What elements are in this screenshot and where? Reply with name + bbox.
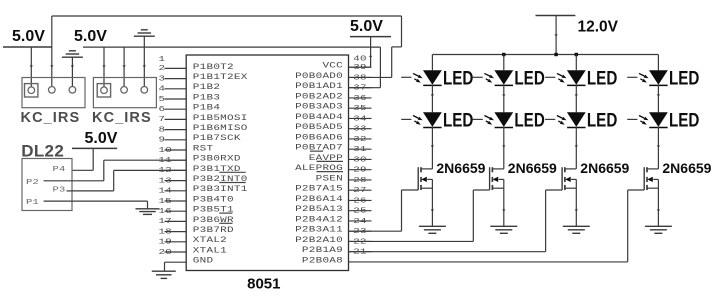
pin 13 stub (159, 176, 187, 185)
pin 4 stub (159, 84, 187, 93)
power 5.0V supply V1 bar (3, 46, 52, 48)
pin label XTAL1 (193, 246, 227, 255)
svg-text:26: 26 (353, 196, 367, 205)
pin 14 stub (159, 186, 187, 195)
pin 5 stub (159, 94, 187, 103)
wire 8051 GND to ground (165, 262, 187, 271)
svg-text:2: 2 (159, 64, 166, 73)
wire col2 rail to LED2A (503, 55, 505, 71)
transistor Q2 2N6659 (490, 167, 504, 190)
pin label P2B5A13 (295, 204, 343, 213)
svg-text:32: 32 (353, 134, 366, 143)
wire Q3 source to ground (575, 188, 578, 226)
svg-text:29: 29 (353, 165, 366, 174)
wire col1 rail to LED1A (431, 55, 433, 71)
svg-text:P2B7A15: P2B7A15 (295, 184, 343, 193)
connector J2 pin 2 (121, 87, 128, 94)
svg-text:1: 1 (159, 55, 166, 64)
svg-text:P1B2: P1B2 (193, 83, 220, 92)
overline INT1 (219, 182, 245, 184)
wire col4 rail to LED4A (657, 55, 659, 71)
junction dot col3 (575, 53, 578, 56)
pin 33 stub (349, 124, 372, 133)
wire Q4 source to ground (657, 188, 660, 226)
svg-text:KC_IRS: KC_IRS (92, 110, 152, 126)
svg-text:VCC: VCC (322, 61, 343, 70)
svg-text:P0B4AD4: P0B4AD4 (295, 112, 343, 121)
pin label P2B1A9 (302, 245, 343, 254)
svg-text:P2B3A11: P2B3A11 (295, 225, 343, 234)
svg-text:P1B0T2: P1B0T2 (193, 62, 234, 71)
pin 23 stub (349, 226, 372, 235)
svg-text:P1B7SCK: P1B7SCK (193, 134, 241, 143)
pin label P1B4 (193, 103, 220, 112)
wire V4 to DL22 pin P4 (72, 148, 93, 170)
svg-text:39: 39 (353, 62, 366, 71)
svg-text:5: 5 (159, 94, 166, 103)
connector U2 pin label P3 (53, 185, 72, 194)
pin 26 stub (349, 196, 372, 205)
wire 8051 to Q4 gate (349, 190, 645, 262)
pin label ALEPROG (295, 163, 343, 172)
svg-text:P2: P2 (26, 177, 39, 186)
svg-text:6: 6 (159, 104, 166, 113)
svg-text:P0B2AD2: P0B2AD2 (295, 92, 343, 101)
pin 25 stub (349, 206, 372, 215)
wire LED1B to Q1 drain (431, 127, 434, 169)
connector U2 pin label P2 (26, 177, 72, 186)
pin label P3B0RXD (193, 154, 241, 163)
pin label P1B3 (193, 93, 220, 102)
transistor Q4 label (662, 160, 711, 176)
transistor Q4 2N6659 (644, 167, 658, 190)
ground GND under Q3 (563, 226, 590, 233)
LED D3A (545, 67, 617, 89)
svg-text:P0B7AD7: P0B7AD7 (295, 143, 343, 152)
LED D2A (473, 67, 545, 89)
pin label P1B6MISO (193, 123, 248, 132)
pin 8 stub (159, 125, 187, 134)
svg-text:9: 9 (159, 135, 166, 144)
wire LED1A to LED1B (431, 85, 434, 113)
svg-text:LED: LED (669, 109, 699, 131)
wire KC_IRS J2 pin2 (123, 47, 126, 86)
wire 5.0V rail to 8051 pin37 net (83, 47, 380, 88)
svg-text:27: 27 (353, 185, 366, 194)
svg-text:RST: RST (193, 144, 214, 153)
connector J2 KC_IRS box (93, 78, 156, 108)
connector J1 pin 1 square (25, 84, 38, 97)
power 12.0V supply label (578, 19, 619, 36)
connector J2 label KC_IRS (92, 110, 152, 126)
LED D4B (627, 109, 699, 131)
svg-text:ALEPROG: ALEPROG (295, 163, 343, 172)
overline RD (219, 222, 232, 224)
ground GND2 inverted above J2 pin3 (134, 30, 155, 87)
pin 31 stub (349, 144, 372, 153)
pin 24 stub (349, 216, 372, 225)
svg-text:P0B5AD5: P0B5AD5 (295, 122, 343, 131)
overline PROG (317, 160, 343, 162)
power 12.0V supply bar (536, 15, 576, 17)
power 5.0V supply V3 bar (350, 36, 391, 38)
pin number 40 (353, 54, 367, 63)
svg-text:4: 4 (159, 84, 166, 93)
svg-text:2N6659: 2N6659 (436, 160, 485, 176)
pin label P2B7A15 (295, 184, 343, 193)
transistor Q1 label (436, 160, 485, 176)
pin 3 stub (159, 74, 187, 83)
pin 35 stub (349, 103, 372, 112)
ground GND under Q4 (645, 226, 672, 233)
pin label P1B2 (193, 83, 220, 92)
LED D2B (473, 109, 545, 131)
connector U2 pin label P1 (26, 198, 72, 207)
svg-text:5.0V: 5.0V (85, 130, 118, 147)
svg-text:PSEN: PSEN (316, 174, 343, 183)
svg-text:P0B6AD6: P0B6AD6 (295, 133, 343, 142)
svg-text:P2B4A12: P2B4A12 (295, 215, 343, 224)
pin label RST (193, 144, 214, 153)
pin label EAVPP (309, 153, 343, 162)
svg-text:EAVPP: EAVPP (309, 153, 343, 162)
connector J1 KC_IRS box (22, 78, 85, 108)
svg-text:XTAL1: XTAL1 (193, 246, 227, 255)
power 5.0V supply V1 label (12, 28, 45, 45)
junction dot col2 (502, 53, 505, 56)
wire DL22 P3 to 8051 pin12 (72, 170, 186, 191)
pin label P0B2AD2 (295, 92, 343, 101)
pin 34 stub (349, 114, 372, 123)
ground GND1 inverted above J1 pin3 (62, 51, 83, 87)
IC U1 8051 body (186, 55, 348, 271)
svg-text:LED: LED (443, 67, 473, 89)
power 5.0V supply V2 label (74, 28, 107, 45)
pin label P1B7SCK (193, 134, 241, 143)
pin label P0B4AD4 (295, 112, 343, 121)
svg-text:P1B4: P1B4 (193, 103, 220, 112)
svg-text:P0B1AD1: P0B1AD1 (295, 81, 343, 90)
wire LED top rail (432, 54, 658, 56)
transistor Q3 2N6659 (562, 167, 576, 190)
wire LED4B to Q4 drain (657, 127, 660, 169)
svg-text:38: 38 (353, 73, 367, 82)
pin label P0B7AD7 (295, 143, 343, 152)
pin 6 stub (159, 104, 187, 113)
wire DL22 P1 to ground (72, 201, 148, 209)
wire V3 to 8051 VCC pin40 (349, 37, 373, 68)
pin 32 stub (349, 134, 372, 143)
wire Q2 source to ground (502, 188, 505, 226)
svg-text:P1B1T2EX: P1B1T2EX (193, 72, 248, 81)
pin number 1 (159, 55, 166, 64)
LED D1B (401, 109, 473, 131)
pin label XTAL2 (193, 236, 227, 245)
IC U1 8051 name label (247, 275, 280, 292)
pin label P2B3A11 (295, 225, 343, 234)
wire Q1 source to ground (431, 188, 434, 226)
svg-text:28: 28 (353, 175, 367, 184)
svg-text:LED: LED (514, 109, 544, 131)
pin label P0B0AD0 (295, 71, 343, 80)
pin 27 stub (349, 185, 372, 194)
svg-text:XTAL2: XTAL2 (193, 236, 227, 245)
LED D4A (627, 67, 699, 89)
wire col3 rail to LED3A (575, 55, 577, 71)
pin 29 stub (349, 165, 372, 174)
svg-text:2N6659: 2N6659 (580, 160, 629, 176)
svg-text:37: 37 (353, 83, 366, 92)
svg-text:5.0V: 5.0V (74, 28, 107, 45)
wire 8051 to Q2 gate (349, 190, 490, 241)
pin 16 stub (159, 206, 187, 215)
pin label P3B7RD (193, 225, 234, 234)
connector J1 pin 2 (49, 87, 56, 94)
transistor Q2 label (508, 160, 557, 176)
svg-text:LED: LED (443, 109, 473, 131)
wire DL22 P2 to 8051 pin11 (72, 160, 186, 181)
svg-text:2N6659: 2N6659 (508, 160, 557, 176)
pin label P2B4A12 (295, 215, 343, 224)
svg-text:8051: 8051 (247, 275, 280, 292)
pin 39 stub (349, 62, 372, 71)
pin label P1B5MOSI (193, 113, 248, 122)
overline PSEN (317, 171, 343, 173)
svg-text:12.0V: 12.0V (578, 19, 619, 36)
svg-text:KC_IRS: KC_IRS (21, 110, 81, 126)
overline WR (219, 212, 232, 214)
transistor Q3 label (580, 160, 629, 176)
ground GND under Q1 (419, 226, 446, 233)
pin label P2B2A10 (295, 235, 343, 244)
svg-text:3: 3 (159, 74, 166, 83)
svg-text:P3B0RXD: P3B0RXD (193, 154, 241, 163)
pin 36 stub (349, 93, 372, 102)
pin label P3B3INT1 (193, 185, 248, 194)
wire V2 to KC_IRS J2 pin1 (102, 47, 105, 86)
svg-text:2N6659: 2N6659 (662, 160, 711, 176)
svg-text:DL22: DL22 (21, 142, 64, 161)
pin 37 stub (349, 83, 372, 92)
pin label P3B1TXD (193, 164, 241, 173)
svg-text:30: 30 (353, 155, 367, 164)
pin 11 stub (159, 155, 187, 164)
svg-text:P0B3AD3: P0B3AD3 (295, 102, 343, 111)
svg-text:P4: P4 (53, 164, 66, 173)
wire 12V to LED rail (555, 16, 558, 55)
power 5.0V supply V4 bar (72, 147, 117, 149)
connector U2 pin label P4 (53, 164, 66, 173)
junction dot 12V (554, 53, 557, 56)
svg-text:P3: P3 (53, 185, 66, 194)
pin 19 stub (159, 237, 187, 246)
wire LED3A to LED3B (575, 85, 578, 113)
pin label P0B6AD6 (295, 133, 343, 142)
connector U2 DL22 box (22, 159, 72, 211)
power 5.0V supply V4 label (85, 130, 118, 147)
pin 22 stub (349, 237, 372, 246)
pin label P2B0A8 (302, 256, 343, 265)
pin 38 stub (349, 73, 372, 82)
ground GND under Q2 (490, 226, 517, 233)
pin 7 stub (159, 115, 187, 124)
pin 10 stub (159, 145, 187, 154)
svg-text:5.0V: 5.0V (12, 28, 45, 45)
pin label P0B1AD1 (295, 81, 343, 90)
svg-text:33: 33 (353, 124, 367, 133)
LED D3B (545, 109, 617, 131)
wire net J1 pin2 to 8051 pin38 (52, 16, 402, 77)
svg-text:7: 7 (159, 115, 166, 124)
connector J1 label KC_IRS (21, 110, 81, 126)
svg-text:25: 25 (353, 206, 367, 215)
connector J2 pin 1 square (97, 84, 110, 97)
pin label VCC (322, 61, 343, 70)
svg-text:LED: LED (587, 109, 617, 131)
svg-text:P1B5MOSI: P1B5MOSI (193, 113, 248, 122)
pin label PSEN (316, 174, 343, 183)
wire 8051 to Q1 gate (349, 190, 419, 231)
svg-text:P2B5A13: P2B5A13 (295, 204, 343, 213)
svg-text:LED: LED (587, 67, 617, 89)
svg-text:35: 35 (353, 103, 367, 112)
pin 2 stub (159, 64, 187, 73)
ground GND3 below DL22 P1 (136, 209, 160, 215)
pin label P0B5AD5 (295, 122, 343, 131)
svg-text:LED: LED (514, 67, 544, 89)
svg-text:GND: GND (193, 256, 214, 265)
pin label P3B2INT0 (193, 174, 248, 183)
pin 18 stub (159, 227, 187, 236)
svg-text:P1B6MISO: P1B6MISO (193, 123, 248, 132)
pin 17 stub (159, 217, 187, 226)
svg-text:P2B2A10: P2B2A10 (295, 235, 343, 244)
pin 30 stub (349, 155, 372, 164)
svg-text:LED: LED (669, 67, 699, 89)
svg-text:P1: P1 (26, 198, 39, 207)
svg-text:P1B3: P1B3 (193, 93, 220, 102)
pin label P3B5T1 (193, 205, 234, 214)
pin 15 stub (159, 196, 187, 205)
wire LED3B to Q3 drain (575, 127, 578, 169)
svg-text:31: 31 (353, 144, 367, 153)
pin label P2B6A14 (295, 194, 343, 203)
pin label P0B3AD3 (295, 102, 343, 111)
pin label GND (193, 256, 214, 265)
wire LED2A to LED2B (502, 85, 505, 113)
wire 8051 to Q3 gate (349, 190, 563, 252)
svg-text:P3B4T0: P3B4T0 (193, 195, 234, 204)
svg-text:34: 34 (353, 114, 367, 123)
ground GND4 below 8051 (152, 271, 176, 278)
pin 9 stub (159, 135, 187, 144)
pin label P1B1T2EX (193, 72, 248, 81)
pin 21 stub (349, 247, 372, 256)
svg-text:5.0V: 5.0V (350, 18, 383, 35)
power 5.0V supply V3 label (350, 18, 383, 35)
connector J1 pin 3 (69, 87, 76, 94)
connector U2 DL22 label (21, 142, 64, 161)
wire LED2B to Q2 drain (502, 127, 505, 169)
pin 12 stub (159, 166, 187, 175)
svg-text:24: 24 (353, 216, 367, 225)
svg-text:P3B3INT1: P3B3INT1 (193, 185, 248, 194)
svg-text:P2B0A8: P2B0A8 (302, 256, 343, 265)
svg-text:P2B6A14: P2B6A14 (295, 194, 343, 203)
wire KC_IRS J1 pin2 to net up (50, 16, 53, 87)
svg-text:36: 36 (353, 93, 367, 102)
svg-text:P2B1A9: P2B1A9 (302, 245, 343, 254)
LED D1A (401, 67, 473, 89)
overline EA (310, 150, 323, 152)
svg-text:P0B0AD0: P0B0AD0 (295, 71, 343, 80)
pin 20 stub (159, 247, 187, 256)
pin label P3B4T0 (193, 195, 234, 204)
overline INT0 (219, 171, 245, 173)
pin label P3B6WR (193, 215, 234, 224)
pin label P1B0T2 (193, 62, 234, 71)
pin 28 stub (349, 175, 372, 184)
svg-text:P3B7RD: P3B7RD (193, 225, 234, 234)
svg-text:8: 8 (159, 125, 166, 134)
connector J2 pin 3 (141, 87, 148, 94)
transistor Q1 2N6659 (418, 167, 432, 190)
wire V1 to KC_IRS J1 pin1 (30, 47, 33, 87)
wire LED4A to LED4B (657, 85, 660, 113)
